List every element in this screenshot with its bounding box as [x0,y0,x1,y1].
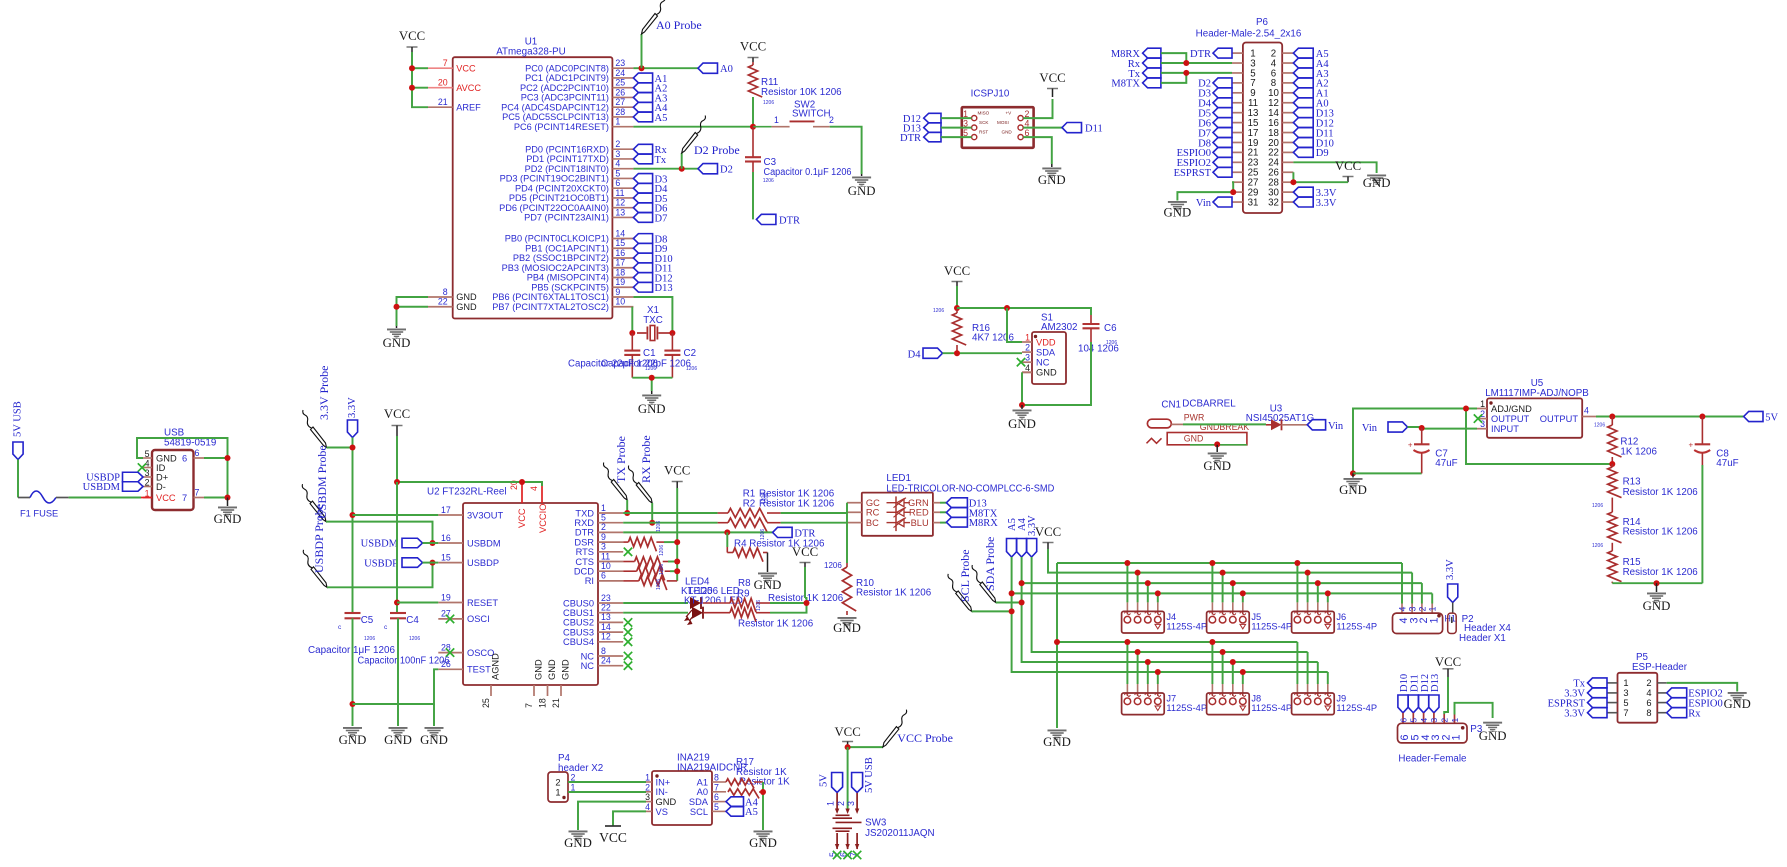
svg-text:Resistor 1K 1206: Resistor 1K 1206 [759,499,835,510]
svg-text:PD7 (PCINT23AIN1): PD7 (PCINT23AIN1) [524,213,609,223]
svg-text:1125S-4P: 1125S-4P [1251,621,1292,631]
svg-text:32: 32 [1268,197,1279,208]
svg-text:CBUS4: CBUS4 [563,637,594,647]
svg-text:GND: GND [214,512,242,526]
svg-text:47uF: 47uF [1716,458,1738,469]
svg-text:1206: 1206 [659,545,665,556]
svg-text:RST: RST [979,130,988,135]
net tag Vin at diode [1307,420,1325,430]
svg-text:4: 4 [1398,607,1408,612]
wire PC0 to A0 tag [633,67,698,69]
svg-text:D9: D9 [1316,148,1329,159]
wire Rx to P6 pin3 [1161,62,1232,64]
svg-text:OSCI: OSCI [467,614,490,624]
power flag VCC at INA [605,825,621,827]
svg-text:GND: GND [384,733,412,747]
svg-text:VCC: VCC [156,493,176,503]
svg-text:7: 7 [524,703,534,708]
svg-text:A5: A5 [745,807,758,818]
svg-text:3: 3 [846,801,856,806]
svg-text:24: 24 [615,68,625,78]
LED LED5 KT-1206 [692,607,703,619]
svg-text:D11: D11 [1085,124,1103,135]
svg-text:1: 1 [1428,617,1440,623]
svg-text:1: 1 [615,117,620,127]
junction [409,65,415,71]
svg-text:6: 6 [195,448,200,458]
probe SCL Probe [948,574,972,612]
svg-text:USBDP: USBDP [364,558,398,569]
svg-text:USBDP Probe: USBDP Probe [312,504,326,573]
svg-text:6: 6 [1646,698,1651,708]
P3 pin numbers inside box [1399,734,1463,740]
junction [1004,305,1010,311]
svg-text:A1: A1 [697,777,708,787]
resistor R1 1K [718,512,728,514]
junction [760,789,766,795]
svg-text:J8: J8 [1251,694,1261,704]
wire PB6 to crystal [633,297,672,333]
svg-text:SDA: SDA [1036,348,1056,358]
svg-text:Resistor 1K 1206: Resistor 1K 1206 [738,618,814,629]
junction [350,512,356,518]
connector J9 1125S-4P [1292,693,1335,715]
connector J4 1125S-4P [1122,611,1165,633]
wire VDD drop [1007,308,1022,342]
svg-text:Resistor 10K 1206: Resistor 10K 1206 [761,87,842,98]
junction [1183,60,1189,66]
svg-text:GND: GND [456,292,477,302]
svg-text:R2: R2 [743,499,756,510]
resistor R2 1K [718,522,728,524]
svg-text:AREF: AREF [456,102,481,112]
ground for crystal [651,391,653,394]
junction [1350,470,1356,476]
wire P4 to INA219 IN+ [568,781,646,783]
svg-text:SCL: SCL [690,807,708,817]
wire SDA rail row C [1022,557,1318,662]
net tags Tx 3.3V ESPRST 3.3V at P5 [1548,678,1607,720]
svg-text:GND: GND [1203,459,1231,473]
svg-text:RTS: RTS [576,547,594,557]
wire VCC rail row B [1048,549,1412,573]
svg-text:VCC: VCC [1039,71,1065,85]
junction [519,479,525,485]
svg-text:J9: J9 [1336,694,1346,704]
svg-text:3.3V: 3.3V [1316,198,1337,209]
svg-text:J6: J6 [1336,612,1346,622]
svg-text:17: 17 [615,258,625,268]
ground for U1 [396,326,398,328]
svg-text:19: 19 [615,277,625,287]
ground at R4 [758,573,777,583]
svg-text:VCC: VCC [1435,655,1461,669]
svg-text:27: 27 [615,97,625,107]
svg-text:PWR: PWR [1184,412,1205,422]
junction [1463,406,1469,412]
GNDBREAK box [1167,433,1247,445]
wire ICSP GND pin [1023,137,1052,164]
wire ICSP MOSI to D11 [1023,127,1062,129]
svg-text:MISO: MISO [978,111,990,116]
svg-text:Vin: Vin [1362,423,1378,434]
net tag USBDP at U2 [402,558,423,568]
probe USBDM Probe [302,484,326,522]
wire PB7 to crystal [631,307,633,333]
svg-text:5: 5 [1623,698,1628,708]
svg-text:1: 1 [1623,678,1628,688]
svg-text:GND: GND [1008,417,1036,431]
wire ICSP +V pin [1023,99,1052,118]
svg-text:PC1 (ADC1PCINT9): PC1 (ADC1PCINT9) [525,73,609,83]
svg-text:Resistor 1K 1206: Resistor 1K 1206 [856,588,932,599]
svg-text:PD6 (PCINT22OC0AAIN0): PD6 (PCINT22OC0AAIN0) [499,203,609,213]
svg-text:2: 2 [1480,409,1485,419]
junction [1009,590,1015,596]
connector J6 1125S-4P [1292,611,1335,633]
svg-text:3: 3 [615,149,620,159]
svg-text:GND: GND [547,659,557,680]
net tags M8RX Rx Tx M8TX [1111,48,1161,90]
svg-text:D13: D13 [1430,674,1441,692]
U1 right pins with numbers [492,58,633,312]
svg-text:4: 4 [615,159,620,169]
svg-text:MOSI: MOSI [997,120,1009,125]
connector J5 1125S-4P [1207,611,1250,633]
ground on TEST bus [433,704,435,726]
svg-text:BLU: BLU [911,518,929,528]
svg-text:GND: GND [848,184,876,198]
U2 left pins [438,505,503,675]
svg-text:NSI45025AT1G: NSI45025AT1G [1246,413,1314,424]
ground at P6 left [1168,201,1187,211]
svg-text:9: 9 [615,287,620,297]
svg-text:7: 7 [443,58,448,68]
svg-text:3V3OUT: 3V3OUT [467,510,503,520]
wire USB VCC right [194,497,205,499]
svg-text:PB3 (MOSIOC2APCINT3): PB3 (MOSIOC2APCINT3) [502,263,609,273]
svg-text:Vin: Vin [1328,421,1344,432]
junction [674,539,680,545]
svg-text:1206: 1206 [756,600,762,611]
svg-text:4: 4 [1646,688,1651,698]
svg-text:C4: C4 [406,615,419,626]
svg-text:3.3V: 3.3V [1564,709,1585,720]
svg-text:NC: NC [1036,358,1050,368]
svg-text:GND: GND [1038,173,1066,187]
junction [629,330,635,336]
svg-text:Vin: Vin [1196,198,1212,209]
svg-text:CBUS0: CBUS0 [563,598,594,608]
X no-connect on U5 OUTPUT left [1474,414,1482,422]
svg-text:4: 4 [645,802,650,812]
capacitor C3 0.1uF [752,127,754,158]
svg-text:2: 2 [571,772,576,782]
svg-text:DTR: DTR [1190,49,1211,60]
svg-text:2: 2 [1025,343,1030,353]
svg-text:PC4 (ADC4SDAPCINT12): PC4 (ADC4SDAPCINT12) [501,102,609,112]
svg-text:21: 21 [551,698,561,708]
junction [1290,179,1296,185]
svg-text:Resistor 1K 1206: Resistor 1K 1206 [1623,527,1699,538]
svg-text:GC: GC [866,498,880,508]
wire VCC rail down [676,488,678,581]
svg-text:PB5 (SCKPCINT5): PB5 (SCKPCINT5) [531,282,609,292]
ground for CN1 [1216,445,1218,452]
svg-text:A0: A0 [697,787,708,797]
svg-text:R9: R9 [737,589,750,600]
svg-text:3: 3 [645,792,650,802]
wire GND vertical to bottom [1056,563,1058,728]
svg-text:RED: RED [909,508,929,518]
net tag D11 [1062,123,1082,133]
svg-text:GND: GND [1036,368,1057,378]
P6 right pin stubs [1282,53,1293,202]
ground at P6 right [1367,175,1386,185]
capacitor C7 47uF polarized [1421,428,1423,444]
svg-text:RXD: RXD [574,518,594,528]
junction [845,744,851,750]
svg-text:1: 1 [1451,734,1463,740]
svg-text:PD2 (PCINT18INT0): PD2 (PCINT18INT0) [525,164,609,174]
ground at P5 [1728,692,1747,702]
svg-text:M8TX: M8TX [1111,79,1140,90]
svg-text:ATmega328-PU: ATmega328-PU [496,47,566,58]
wire R4 to ground [767,553,769,573]
junction [649,375,655,381]
svg-text:GND: GND [833,621,861,635]
wire 3V3OUT stub run [353,514,439,516]
svg-text:22: 22 [438,297,448,307]
svg-text:M8RX: M8RX [969,518,999,529]
junction [674,568,680,574]
svg-text:PC3 (ADC3PCINT11): PC3 (ADC3PCINT11) [521,93,609,103]
resistor R8 1K [703,602,730,604]
junction [674,559,680,565]
svg-text:GND: GND [339,733,367,747]
junction [724,529,730,535]
fuse F1 and wire to USB VCC [17,460,19,498]
connector J7 1125S-4P [1122,693,1165,715]
svg-text:Capacitor 100nF 1206: Capacitor 100nF 1206 [358,656,451,667]
svg-text:1206: 1206 [364,636,375,642]
svg-text:SW3: SW3 [865,818,887,829]
wire PC6 reset net [633,126,753,128]
svg-text:5: 5 [1409,718,1419,723]
svg-text:CBUS2: CBUS2 [563,618,594,628]
junction [394,304,400,310]
svg-text:1: 1 [1428,607,1438,612]
svg-text:7: 7 [182,493,187,503]
svg-text:Resistor 1K 1206: Resistor 1K 1206 [1623,567,1699,578]
X no-connect marks on U2 [446,615,454,623]
ground at P3 [1483,722,1502,732]
svg-text:1206: 1206 [659,564,665,575]
junction [225,455,231,461]
svg-text:CN1: CN1 [1161,400,1181,411]
svg-text:13: 13 [601,612,611,622]
IC U1 ATmega328-PU [453,57,613,318]
svg-text:5: 5 [615,168,620,178]
svg-text:1: 1 [1025,333,1030,343]
svg-text:VCC: VCC [456,63,476,73]
svg-text:GND: GND [1043,735,1071,749]
junction [1009,608,1015,614]
wire VCC to P3 pin2 [1444,677,1448,714]
wire C6 to ground [1022,342,1091,405]
wire SDA probe [996,602,1022,604]
svg-text:11: 11 [615,188,624,198]
ground at bus [1048,730,1067,740]
svg-text:1206: 1206 [686,366,697,372]
svg-text:PB2 (SSOC1BPCINT2): PB2 (SSOC1BPCINT2) [513,253,609,263]
wire TXD to R1 [623,512,717,514]
junction [1699,414,1705,420]
svg-text:11: 11 [601,551,610,561]
svg-text:18: 18 [615,267,625,277]
X marks on SW3 pins [833,851,841,859]
svg-text:7: 7 [714,782,719,792]
svg-text:R13: R13 [1623,476,1642,487]
wire DTR to R4 [726,532,728,547]
X no-connect on USB ID [138,463,146,471]
svg-text:D-: D- [156,482,166,492]
wire Tx to P6 pin5 [1161,72,1232,74]
junction [954,350,960,356]
wires into J9 [1296,642,1298,684]
ground at R10 [838,617,857,627]
svg-text:DTR: DTR [779,216,800,227]
wires into J4 [1126,563,1128,602]
svg-text:2: 2 [145,478,150,488]
wire D4 to SDA [943,352,1023,354]
svg-text:PC2 (ADC2PCINT10): PC2 (ADC2PCINT10) [520,83,609,93]
wire TX probe [626,500,628,513]
svg-text:5V USB: 5V USB [13,401,24,437]
svg-text:AVCC: AVCC [456,83,481,93]
net tag A5 at INA [726,807,744,817]
svg-text:6: 6 [601,571,606,581]
svg-text:DCD: DCD [574,567,594,577]
svg-text:2: 2 [645,782,650,792]
svg-text:SCL Probe: SCL Probe [958,549,972,602]
svg-text:CTS: CTS [575,557,594,567]
wire Vin to U5 INPUT [1408,427,1478,429]
svg-text:GRN: GRN [908,498,929,508]
svg-text:6: 6 [714,792,719,802]
junction [1214,441,1220,447]
svg-text:INPUT: INPUT [1491,424,1519,434]
junction [624,510,630,516]
junction [394,600,400,606]
svg-text:3: 3 [145,468,150,478]
svg-text:C5: C5 [361,615,374,626]
X no-connect on S1 NC [1017,358,1025,366]
svg-text:3: 3 [601,542,606,552]
wire P3 pin1 to ground [1455,703,1493,718]
svg-text:ID: ID [156,463,166,473]
svg-text:A0 Probe: A0 Probe [656,18,702,32]
net tags D2-D8 ESPIO0 ESPIO2 ESPRST at P6 [1174,78,1232,179]
svg-text:2: 2 [615,139,620,149]
svg-text:Header-Male-2.54_2x16: Header-Male-2.54_2x16 [1196,29,1302,40]
wire VCC to SW3 pin2 [847,747,849,810]
junction [1419,425,1425,431]
svg-text:8: 8 [1646,708,1651,718]
wires into J7 [1126,642,1128,684]
P6 left pin stubs [1232,53,1243,202]
svg-text:A0: A0 [720,64,733,75]
net tag DTR at SW2 [756,214,776,224]
svg-text:1125S-4P: 1125S-4P [1166,703,1207,713]
svg-text:20: 20 [438,78,448,88]
U2 bottom pins AGND GND GND GND [481,653,571,708]
svg-text:RI: RI [585,576,594,586]
svg-text:24: 24 [601,656,611,666]
U1 left pins VCC AVCC AREF GND [428,58,481,312]
svg-text:15: 15 [615,238,625,248]
wire USBDP probe [327,563,433,588]
svg-text:1: 1 [1480,399,1485,409]
svg-text:Rx: Rx [1688,709,1701,720]
svg-text:J7: J7 [1166,694,1176,704]
svg-text:USBDP: USBDP [467,558,499,568]
junction [1609,461,1615,467]
wire A1 A0 resistors to ground [762,782,764,830]
svg-text:1206: 1206 [1592,503,1603,509]
svg-text:GND: GND [1724,697,1751,711]
wire VCC vertical to RESET and C4 [396,482,398,613]
capacitor C1 22pF [631,333,633,351]
probe RX Probe [628,466,652,504]
resistor R9 1K [703,612,730,614]
probe VCC Probe [883,710,907,748]
svg-text:PB1 (OC1APCINT1): PB1 (OC1APCINT1) [525,243,609,253]
svg-text:D2: D2 [720,165,733,176]
wire U5 ADJ to divider and ground rail [1353,409,1477,474]
svg-text:Tx: Tx [655,155,667,166]
svg-text:IN+: IN+ [656,777,671,787]
svg-text:10: 10 [601,561,611,571]
net tags Rx Tx on U1 [633,144,667,165]
wire SW2 to ground [830,127,862,174]
junction [430,540,436,546]
svg-text:GND: GND [564,836,592,850]
svg-text:H1: H1 [1445,614,1456,624]
svg-text:P6: P6 [1256,17,1269,28]
svg-text:2: 2 [836,801,846,806]
svg-text:USBDM: USBDM [361,539,399,550]
resistor R6 on DCD [623,570,637,572]
svg-text:C1: C1 [643,348,656,359]
resistor R13 1K [1611,464,1613,467]
svg-text:12: 12 [601,632,611,642]
net tags D3-D7 [633,174,668,225]
wire ground rail to C7 [1353,472,1422,474]
svg-text:J5: J5 [1251,612,1261,622]
svg-text:GND: GND [656,797,677,807]
svg-text:VCC: VCC [740,40,766,54]
svg-text:SDA: SDA [689,797,709,807]
svg-text:A5: A5 [655,113,668,124]
net tag A0 [698,63,718,73]
svg-text:23: 23 [601,593,611,603]
svg-text:1206: 1206 [656,579,662,590]
svg-text:7: 7 [1623,708,1628,718]
svg-text:1K 1206: 1K 1206 [1620,446,1657,457]
svg-text:D+: D+ [156,472,168,482]
junction [669,330,675,336]
